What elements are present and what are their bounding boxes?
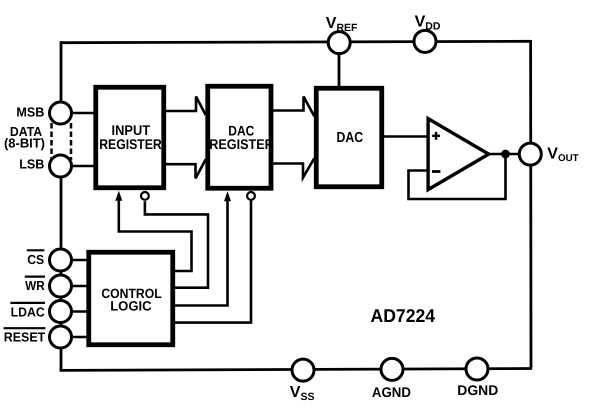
pin WR <box>50 275 72 297</box>
wire LSB stub <box>72 165 95 168</box>
wire bus dac-reg to dac top <box>273 97 314 117</box>
svg-text:REGISTER: REGISTER <box>209 136 274 152</box>
pin CS <box>50 249 72 271</box>
block DAC REGISTER <box>208 86 271 188</box>
wire bus input-reg to dac-reg top <box>166 97 206 116</box>
bubble dac-register (inverting) <box>247 192 255 200</box>
wire MSB stub <box>72 112 95 115</box>
wire left bus lower (LSB to bottom) <box>60 158 63 372</box>
wire left bus upper (to MSB) <box>60 41 63 116</box>
svg-text:LDAC: LDAC <box>11 304 46 319</box>
wire control-logic to dac-register load (arrow) <box>175 199 228 306</box>
svg-text:AD7224: AD7224 <box>371 305 436 326</box>
op-amp U1 <box>428 119 489 190</box>
pin VOUT <box>519 143 541 165</box>
svg-text:(8-BIT): (8-BIT) <box>4 136 45 151</box>
svg-text:LOGIC: LOGIC <box>110 298 152 313</box>
wire control-logic to dac-register bubble <box>175 201 251 323</box>
svg-text:AGND: AGND <box>372 384 411 400</box>
wire right border <box>529 40 532 369</box>
pin VDD <box>414 30 436 52</box>
svg-text:LSB: LSB <box>19 157 44 172</box>
wire VREF stem <box>338 53 341 88</box>
bubble input-register (inverting) <box>141 192 149 200</box>
wire bus input-reg to dac-reg bottom <box>166 159 206 178</box>
svg-text:WR: WR <box>25 278 45 293</box>
wire control-logic to input-register bubble <box>145 201 208 288</box>
svg-text:MSB: MSB <box>16 104 44 119</box>
pin RESET <box>50 326 72 348</box>
pin DGND <box>466 358 488 380</box>
op-amp minus input mark <box>432 170 440 173</box>
svg-text:REGISTER: REGISTER <box>99 136 162 152</box>
junction dot op-amp output <box>501 150 510 159</box>
wire RESET stub <box>72 336 89 338</box>
svg-text:CS: CS <box>27 252 44 267</box>
arrowhead dac-register load <box>224 191 231 201</box>
pin MSB <box>50 102 72 124</box>
wire control-logic to input-register load (arrow) <box>119 198 192 272</box>
arrowhead input-register load <box>115 191 122 201</box>
wire top border <box>61 41 531 42</box>
pin VSS <box>292 359 314 381</box>
wire WR stub <box>72 285 89 287</box>
svg-text:RESET: RESET <box>4 330 45 345</box>
wire dashed bus left <box>50 123 53 160</box>
wire DAC to op-amp <box>384 135 428 138</box>
wire op-amp output <box>489 153 530 156</box>
wire CS stub <box>72 259 89 261</box>
pin LDAC <box>50 301 72 323</box>
wire dashed bus right <box>70 123 73 160</box>
wire op-amp feedback <box>409 154 506 199</box>
wire LDAC stub <box>72 310 89 312</box>
wire bus dac-reg to dac bottom <box>273 158 314 177</box>
svg-text:DAC: DAC <box>337 130 364 146</box>
block DAC <box>316 88 382 187</box>
block INPUT REGISTER <box>96 87 164 188</box>
wire bottom border <box>60 369 532 371</box>
op-amp plus input mark <box>432 132 440 140</box>
pin LSB <box>50 155 72 177</box>
pin AGND <box>381 358 403 380</box>
pin VREF <box>328 32 350 54</box>
block CONTROL LOGIC <box>89 252 173 345</box>
svg-text:DGND: DGND <box>457 382 498 398</box>
